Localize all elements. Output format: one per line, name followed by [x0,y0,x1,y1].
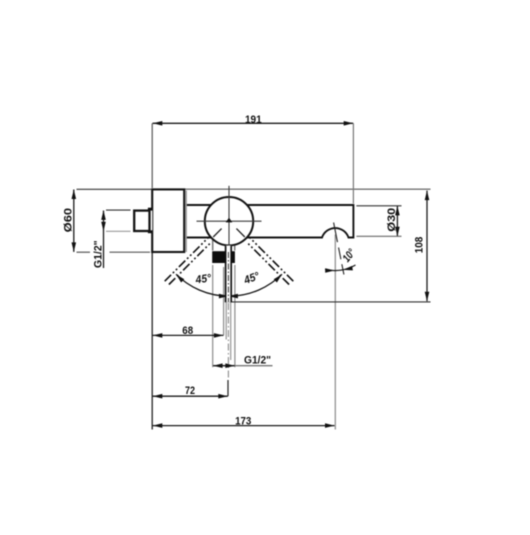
dimension 173 line [153,423,335,428]
extension line pipe left edge [225,303,227,340]
inlet nipple G1/2 [134,211,149,231]
extension line 68 reference [223,267,225,335]
extension line nut right edge [234,265,236,367]
pipe centreline dash-dot [227,252,229,396]
handle swing arc 90° [176,274,282,296]
extension line top of flange (108 datum) [184,188,430,190]
mounting nut (solid) [212,251,235,263]
circle horizontal centreline [197,220,262,222]
handle phantom line right inner [247,243,289,285]
dimension 108 line [425,191,430,302]
centre marker triangle [226,218,233,223]
wall flange [152,189,186,252]
svg-text:Ø30: Ø30 [386,208,398,232]
svg-text:68: 68 [182,325,193,337]
handle phantom line left inner [169,243,211,285]
svg-text:173: 173 [235,415,251,427]
svg-text:108: 108 [414,237,426,254]
handle indicator radial left [213,229,221,237]
arrowhead swing arc left end [176,274,184,282]
outlet pipe [226,246,232,303]
circle vertical centreline [228,186,230,252]
arrowhead swing arc centre-left [219,294,229,299]
svg-text:191: 191 [245,114,262,126]
handle phantom line left outer [165,237,209,281]
dimension 68 line [153,333,224,338]
dimension Ø30 line [356,206,401,237]
arrowhead swing arc right end [274,274,282,282]
extension line pipe right edge [230,303,232,361]
svg-text:Ø60: Ø60 [62,208,74,233]
shank silhouette right [234,239,236,251]
10° tilted reference line [334,223,344,275]
svg-text:72: 72 [185,385,195,397]
svg-text:G1/2": G1/2" [93,240,105,268]
angle 10° arc [325,265,356,273]
dimension Ø60 line [72,189,153,252]
dimension 72 line [153,394,228,399]
dimension G1/2 outlet line [213,363,272,368]
dimension G1/2 inlet line [101,210,130,268]
inlet nipple collar [148,208,152,234]
svg-text:45°: 45° [194,272,212,286]
svg-text:G1/2": G1/2" [244,354,271,366]
handle phantom line right outer [250,237,294,281]
cartridge circle [205,197,253,245]
handle indicator radial right [236,229,244,237]
shank silhouette left [212,239,214,251]
extension line of spout outlet (173/10° datum) [334,235,336,430]
arrowhead swing arc centre-right [228,294,238,299]
dimension 191 line [152,121,353,204]
extension line bottom of spout (108 datum) [226,301,431,303]
extension line nut left edge [212,265,214,367]
wall extension line (left datum) [151,253,153,430]
faucet body barrel [184,205,353,238]
